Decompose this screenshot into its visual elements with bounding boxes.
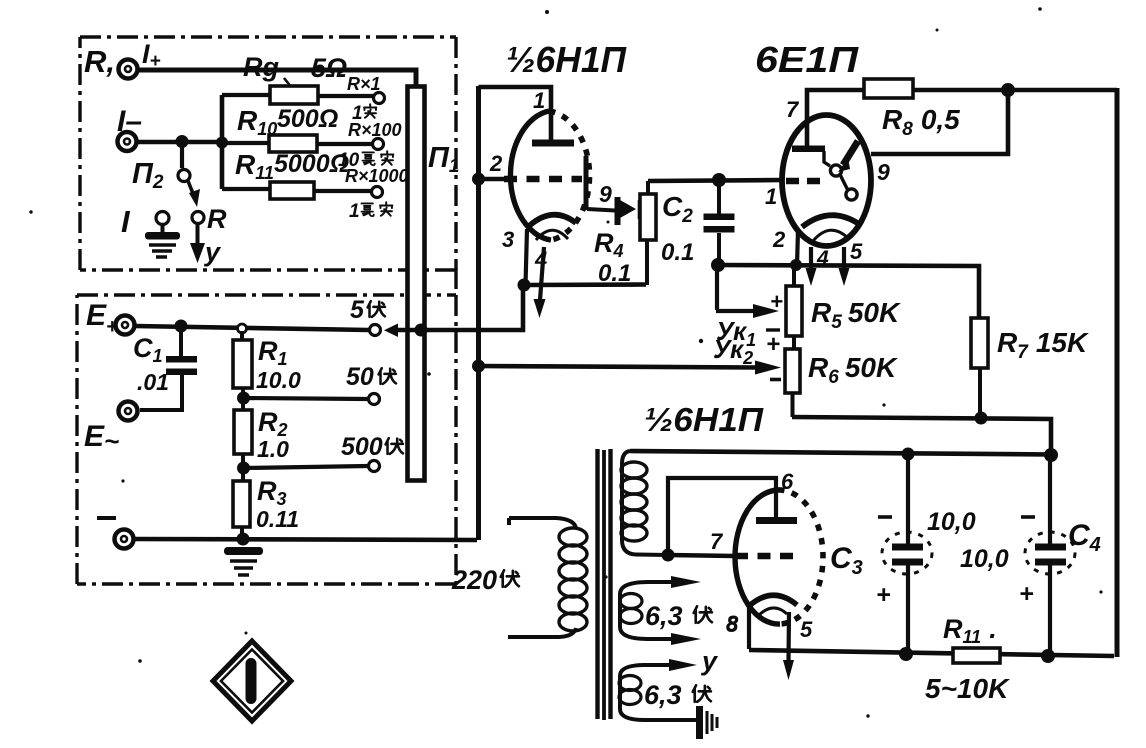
terminal Rx100 — [373, 139, 384, 150]
capacitor C1 .01 — [133, 326, 197, 410]
svg-text:0.1: 0.1 — [598, 260, 631, 287]
pin7 wire to R8 — [807, 90, 866, 146]
svg-text:9: 9 — [877, 159, 890, 185]
heater pin4 arrow — [534, 247, 548, 318]
tube V3 anode plate pin6 — [756, 517, 797, 524]
label R9 with leader line — [243, 52, 347, 88]
wire UK2 line from left riser to R6 — [478, 361, 781, 375]
svg-text:5: 5 — [850, 239, 863, 264]
junction dot grid pin2 — [472, 173, 485, 186]
resistor R11 5-10K — [925, 614, 1010, 704]
junction dot R1-R2 — [237, 392, 250, 405]
potentiometer R5 50K — [786, 265, 901, 349]
svg-text:4: 4 — [816, 247, 829, 270]
svg-text:5Ω: 5Ω — [311, 53, 347, 83]
label UK2 minus — [770, 378, 781, 382]
label 1 hao an — [349, 201, 392, 222]
wire winding node to grid pin7 — [668, 555, 735, 556]
junction dot C2 bottom — [711, 258, 725, 272]
contact I with ground — [121, 204, 180, 257]
wire pin9 to R8 node — [871, 90, 1008, 154]
svg-text:+: + — [876, 581, 891, 609]
svg-text:½6Н1П: ½6Н1П — [506, 39, 627, 80]
chassis ground at winding 2 — [696, 706, 717, 739]
junction dot C3 top — [902, 448, 915, 461]
capacitor C3 electrolytic — [882, 455, 932, 654]
svg-text:2: 2 — [489, 151, 503, 176]
heater pin5 arrow of V3 — [783, 612, 813, 680]
junction dot riser UK2 — [472, 360, 485, 373]
secondary anode winding — [621, 451, 668, 555]
svg-text:1: 1 — [349, 201, 360, 222]
terminal I- — [118, 132, 137, 151]
svg-text:7: 7 — [786, 97, 800, 122]
switch bar P1 — [408, 87, 425, 481]
svg-text:у: у — [700, 646, 719, 676]
junction dot C2 top — [712, 173, 726, 187]
resistor R2 1.0 — [234, 407, 289, 482]
wire R6 bottom rail to corner — [792, 417, 1051, 455]
junction dot C3 bottom — [899, 647, 913, 661]
wire R8 to top rail — [913, 88, 1117, 93]
dash-dot boundary box lower-left (voltage divider unit) — [77, 295, 456, 584]
resistor R9 5 ohm — [222, 86, 374, 104]
svg-text:6: 6 — [781, 469, 794, 494]
junction dot R7 bottom — [975, 412, 988, 425]
svg-text:0.11: 0.11 — [256, 506, 299, 532]
junction dot pin2/R5 — [790, 259, 802, 271]
ground symbol below R3 — [224, 547, 263, 575]
wire pin2 stub — [481, 177, 504, 182]
svg-text:1: 1 — [765, 184, 777, 209]
wire grid line node to 6E1P pin1 — [648, 180, 782, 181]
wire minus rail to riser — [134, 539, 477, 540]
svg-text:50: 50 — [346, 363, 374, 391]
label UK2 — [713, 331, 780, 368]
top rail right corner down — [1115, 88, 1120, 657]
pin9 take-off arrow — [587, 181, 644, 225]
dash-dot connector between boxes — [454, 268, 457, 297]
capacitor C4 electrolytic — [1025, 455, 1075, 655]
capacitor C2 0.1 — [661, 180, 735, 266]
svg-text:½6Н1П: ½6Н1П — [644, 401, 764, 438]
switch P2 wiper — [178, 141, 200, 207]
tube V1 anode plate pin1 — [532, 140, 574, 147]
resistor R8 0.5 — [864, 79, 960, 140]
tube V1 grid dashes pin2 — [504, 176, 582, 183]
terminal 50V — [369, 394, 380, 405]
svg-text:Rg: Rg — [243, 52, 279, 82]
svg-text:2: 2 — [772, 227, 786, 252]
terminal 5V with arrow — [350, 296, 398, 337]
resistor R10 500 ohm — [222, 135, 372, 152]
tube V3 envelope (half shown) — [735, 490, 823, 624]
svg-text:R×100: R×100 — [348, 120, 402, 140]
resistor R3 0.11 — [233, 476, 299, 545]
svg-text:1.0: 1.0 — [257, 436, 289, 462]
terminal I+ — [119, 60, 138, 79]
heater pin5 arrow of V2 — [839, 239, 864, 286]
svg-text:5: 5 — [350, 296, 365, 324]
wire I- to resistor rail — [137, 140, 224, 145]
svg-text:10,0: 10,0 — [960, 545, 1009, 573]
label 1 an — [352, 103, 376, 124]
wire C2 bottom to R5 top and R7 — [718, 265, 979, 318]
terminal E+ — [116, 316, 135, 335]
tube V2 deflector slash — [838, 141, 858, 172]
cathode lead pin3 — [526, 229, 528, 285]
resistor R7 15K — [971, 318, 1089, 418]
label 500V — [341, 433, 403, 461]
small node circle R1 top — [238, 324, 247, 333]
svg-text:7: 7 — [710, 529, 724, 554]
junction dot at P2 tap — [176, 135, 189, 148]
svg-text:6,3: 6,3 — [644, 680, 682, 710]
tube V1 cathode arcs — [529, 215, 576, 240]
terminal 500V — [369, 461, 380, 472]
tube V2 cathode arcs — [802, 215, 859, 241]
wire 5V to cathode node of first triode — [396, 287, 523, 330]
tube V1 envelope (half shown solid, half dashed) — [510, 111, 589, 240]
tube V3 grid dashes pin7 — [735, 553, 802, 560]
terminal Rx1 — [374, 93, 385, 104]
svg-text:10.0: 10.0 — [256, 367, 301, 393]
svg-text:R650K: R650K — [808, 352, 898, 388]
svg-text:5: 5 — [800, 617, 813, 642]
wire I+ terminal to switch bar P1 — [138, 70, 416, 87]
resistor R1 10.0 — [233, 331, 301, 412]
transformer core laminations — [598, 449, 611, 720]
label minus — [97, 516, 116, 520]
wire anode pin1 strap — [479, 87, 552, 140]
secondary heater winding 1 (6.3V) — [620, 576, 701, 645]
svg-text:6Е1П: 6Е1П — [755, 39, 859, 80]
svg-text:+: + — [770, 289, 783, 314]
instruction diamond symbol — [213, 641, 291, 721]
tube V2 grid dashes pin1 — [786, 178, 820, 185]
svg-text:R,: R, — [84, 44, 115, 79]
tube V2 anode plate pin7 — [792, 146, 825, 153]
label 50V — [346, 363, 396, 391]
svg-text:10,0: 10,0 — [927, 508, 976, 536]
resistor R11 5000 ohm — [222, 182, 371, 199]
tube V2 6E1P envelope — [782, 115, 871, 246]
primary winding 220V — [508, 518, 587, 637]
junction dot R8 node — [1001, 83, 1015, 97]
wire cathode to R4 bottom — [524, 282, 646, 287]
positive rail pin8 to right corner — [749, 650, 1114, 656]
terminal E~ — [119, 402, 138, 421]
svg-text:9: 9 — [599, 181, 612, 207]
label C3 minus plus — [830, 508, 976, 609]
svg-text:6,3: 6,3 — [645, 601, 683, 631]
heater pin4 arrow of V2 — [806, 247, 830, 286]
svg-text:R715K: R715K — [997, 327, 1089, 363]
arrow to U contact — [190, 224, 222, 267]
left riser wire (diode-strapped triode bus) — [476, 86, 481, 540]
label R11 5000ohm — [235, 149, 349, 183]
svg-text:R×1000: R×1000 — [345, 166, 409, 186]
tube V1 inner pin9 bar — [584, 156, 589, 210]
svg-text:I: I — [121, 204, 131, 239]
svg-text:у: у — [203, 237, 222, 267]
svg-text:I–: I– — [117, 105, 142, 138]
cathode pin2 lead — [797, 230, 798, 266]
junction dot at rail — [216, 137, 228, 149]
label 6.3V second — [644, 680, 711, 710]
potentiometer R6 50K — [785, 349, 898, 417]
svg-text:+: + — [1019, 580, 1034, 608]
wire to 50V terminal — [244, 398, 368, 399]
svg-text:500: 500 — [341, 433, 383, 461]
tube V2 target circles — [824, 151, 857, 200]
label 10 hao an — [338, 150, 393, 171]
svg-text:0.1: 0.1 — [661, 239, 694, 266]
tube V3 cathode arcs — [749, 595, 797, 616]
svg-text:220: 220 — [451, 565, 497, 595]
junction dot on P1 bar — [415, 324, 428, 337]
junction dot cathode node — [518, 279, 531, 292]
svg-text:R×1: R×1 — [347, 74, 381, 94]
wire to 500V terminal — [244, 466, 368, 468]
dash-dot boundary box upper-left (measuring resistor unit) — [80, 37, 456, 270]
cathode pin8 lead to positive rail — [747, 608, 751, 649]
svg-text:R: R — [207, 204, 227, 234]
label C4 minus plus — [960, 517, 1101, 608]
label 6.3V with pin8 — [645, 601, 739, 636]
svg-text:3: 3 — [502, 227, 514, 252]
svg-text:5~10K: 5~10K — [925, 673, 1010, 704]
resistor R4 0.1 — [594, 181, 656, 287]
UK1 input arrow — [716, 266, 783, 318]
svg-text:+: + — [766, 331, 780, 358]
label UK1 — [716, 316, 780, 350]
secondary heater winding 2 (6.3V) — [619, 659, 697, 720]
wire E+ rail to 5V terminal — [135, 326, 369, 330]
junction dot C1 tap — [175, 320, 188, 333]
junction dot R2-R3 — [237, 462, 250, 475]
terminal Rx1000 — [372, 187, 383, 198]
junction dot C4 bottom — [1041, 649, 1055, 663]
negative rail winding top to C4 — [630, 451, 1051, 455]
terminal minus — [115, 530, 134, 549]
junction dot C4 top — [1044, 448, 1058, 462]
svg-text:4: 4 — [534, 247, 547, 272]
svg-text:.01: .01 — [137, 369, 169, 395]
svg-text:1: 1 — [533, 88, 545, 113]
svg-text:R550K: R550K — [811, 297, 901, 333]
contact R of P2 — [192, 204, 227, 234]
svg-text:E~: E~ — [84, 420, 119, 456]
pin6 strap from winding node — [668, 478, 776, 555]
label R10 500ohm — [237, 105, 338, 139]
svg-text:8: 8 — [726, 611, 739, 636]
svg-text:500Ω: 500Ω — [277, 105, 338, 133]
label 220V — [451, 565, 519, 595]
svg-text:R80,5: R80,5 — [882, 104, 960, 140]
junction dot ground node — [237, 533, 250, 546]
junction dot winding node — [662, 549, 675, 562]
left rail of range resistors — [220, 95, 225, 189]
